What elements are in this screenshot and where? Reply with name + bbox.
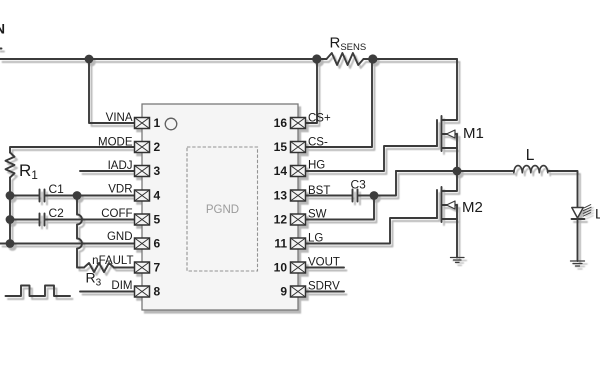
svg-text:C1: C1 xyxy=(49,182,65,196)
svg-text:nFAULT: nFAULT xyxy=(92,255,133,267)
svg-text:VINA: VINA xyxy=(106,112,133,124)
svg-text:C2: C2 xyxy=(49,206,65,220)
svg-text:C3: C3 xyxy=(351,178,367,192)
svg-text:4: 4 xyxy=(154,189,161,203)
svg-text:13: 13 xyxy=(274,189,288,203)
svg-text:8: 8 xyxy=(154,285,161,299)
svg-text:14: 14 xyxy=(274,164,288,178)
svg-text:12: 12 xyxy=(274,213,288,227)
svg-text:SW: SW xyxy=(308,209,327,221)
svg-text:MODE: MODE xyxy=(98,137,133,149)
svg-text:HG: HG xyxy=(308,160,325,172)
svg-text:SDRV: SDRV xyxy=(308,281,340,293)
svg-text:GND: GND xyxy=(107,231,133,243)
svg-text:CS-: CS- xyxy=(308,137,328,149)
svg-text:L: L xyxy=(526,147,535,164)
svg-text:11: 11 xyxy=(274,237,287,251)
svg-text:1: 1 xyxy=(154,116,161,130)
svg-text:VIN: VIN xyxy=(0,22,5,37)
svg-text:VOUT: VOUT xyxy=(308,257,340,269)
svg-text:10: 10 xyxy=(274,261,288,275)
svg-text:DIM: DIM xyxy=(111,280,132,292)
svg-text:PGND: PGND xyxy=(206,204,239,216)
svg-text:BST: BST xyxy=(308,185,330,197)
svg-text:COFF: COFF xyxy=(101,208,132,220)
svg-text:6: 6 xyxy=(154,237,161,251)
svg-text:CS+: CS+ xyxy=(308,113,331,125)
svg-text:16: 16 xyxy=(274,116,288,130)
svg-text:5: 5 xyxy=(154,213,161,227)
svg-text:M2: M2 xyxy=(462,199,483,216)
svg-text:LG: LG xyxy=(308,233,323,245)
svg-text:3: 3 xyxy=(154,164,161,178)
svg-text:2: 2 xyxy=(154,140,161,154)
svg-text:7: 7 xyxy=(154,261,161,275)
svg-text:9: 9 xyxy=(280,285,287,299)
svg-text:VDR: VDR xyxy=(108,184,132,196)
svg-text:M1: M1 xyxy=(463,125,484,142)
svg-text:15: 15 xyxy=(274,140,288,154)
svg-text:IADJ: IADJ xyxy=(108,160,133,172)
svg-text:LED: LED xyxy=(595,206,600,222)
